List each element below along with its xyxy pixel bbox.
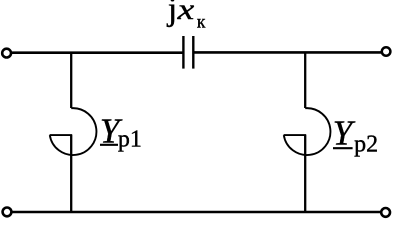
svg-text:p1: p1 <box>118 127 142 153</box>
wire left branch lower <box>70 135 72 212</box>
capacitor C (jx_k) right plate <box>192 36 194 69</box>
terminal left-top <box>2 49 11 58</box>
svg-text:p2: p2 <box>354 132 378 158</box>
wire right branch upper <box>304 52 306 108</box>
reactor Y_p1 horizontal bar <box>50 134 73 136</box>
svg-text:x: x <box>176 0 195 26</box>
label Y_p1 underline <box>100 144 118 146</box>
terminal right-top <box>382 47 391 56</box>
wire right branch lower <box>304 135 306 212</box>
capacitor C (jx_k) left plate <box>182 36 184 69</box>
reactor Y_p2 horizontal bar <box>284 134 307 136</box>
reactor Y_p2 arc <box>284 108 331 155</box>
wire bottom rail <box>12 211 381 214</box>
reactor Y_p1 arc <box>50 108 97 155</box>
wire left branch upper <box>70 53 72 108</box>
wire top-left rail <box>12 51 184 54</box>
terminal right-bottom <box>381 208 390 217</box>
wire top-right rail <box>193 51 381 54</box>
label Y_p2 underline <box>333 147 353 149</box>
svg-text:Y: Y <box>333 113 356 152</box>
svg-text:к: к <box>197 11 206 31</box>
svg-text:j: j <box>167 0 177 28</box>
terminal left-bottom <box>3 208 12 217</box>
